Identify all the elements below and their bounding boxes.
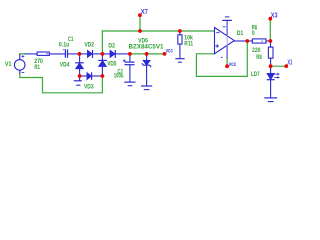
diode VD3 [80, 73, 103, 79]
svg-text:D1: D1 [237, 30, 244, 37]
wire X7 drop [139, 17, 141, 32]
svg-text:X1: X1 [287, 58, 292, 67]
pin X1 dot [284, 64, 288, 68]
capacitor C1 [63, 49, 79, 57]
ground below VD6 [142, 86, 152, 90]
svg-text:V1: V1 [5, 61, 12, 68]
svg-text:VD3: VD3 [84, 84, 94, 91]
svg-text:VD4: VD4 [60, 62, 70, 69]
junction node C [78, 74, 82, 78]
svg-text:R1: R1 [34, 64, 40, 71]
pin X3 dot [268, 17, 272, 21]
svg-text:100u: 100u [114, 73, 124, 80]
wire V1 top stub [20, 53, 25, 56]
pin vcc dot at op-amp [225, 64, 229, 68]
LED LD7 [267, 66, 280, 97]
resistor R6 [247, 39, 270, 43]
wire node B up-link to upper rail [101, 31, 103, 54]
junction op-amp output [245, 39, 249, 43]
op-amp output lead [234, 40, 247, 42]
wire main VCC rail right section [130, 53, 165, 55]
resistor R1 [25, 52, 65, 55]
junction R6 right [269, 39, 273, 43]
svg-text:VD2: VD2 [84, 42, 94, 49]
pin X7 dot [138, 13, 142, 17]
ground below R11 [176, 59, 184, 63]
svg-text:LD7: LD7 [251, 71, 260, 78]
ground below LD7 [265, 98, 277, 102]
svg-text:D2: D2 [108, 42, 115, 49]
junction at VD6 [145, 52, 149, 56]
op-amp U1 [215, 21, 235, 58]
resistor R11 [178, 31, 182, 58]
voltage source V1 [14, 54, 25, 72]
ground below C2 [125, 82, 135, 86]
wire R8 bottom to X1 [271, 65, 287, 67]
junction at C2 [128, 52, 132, 56]
junction R11 top [178, 29, 182, 33]
svg-text:BZX84C5V1: BZX84C5V1 [129, 44, 164, 51]
junction node D [101, 74, 105, 78]
junction R8 bottom [269, 64, 273, 68]
svg-text:R11: R11 [184, 40, 193, 47]
svg-text:VD5: VD5 [107, 61, 117, 68]
svg-text:X7: X7 [141, 7, 148, 16]
capacitor C2 [123, 54, 134, 82]
diode VD2 [79, 51, 102, 58]
junction node B [101, 52, 105, 56]
svg-text:0.1u: 0.1u [59, 41, 70, 48]
svg-text:vcc: vcc [229, 61, 237, 68]
wire V1 bottom net to bridge node D [20, 73, 103, 93]
svg-text:vcc: vcc [166, 48, 173, 55]
ground at bridge node C [74, 76, 81, 85]
resistor R8 [268, 41, 273, 66]
zener diode VD6 [142, 54, 151, 86]
junction node A [78, 52, 82, 56]
junction vcc flag [163, 52, 167, 56]
wire upper rail to op-amp inverting input [102, 30, 214, 32]
diode D2 [102, 51, 129, 58]
junction X7 on upper rail [138, 29, 142, 33]
diode VD4 [76, 54, 83, 76]
svg-text:0: 0 [252, 30, 255, 37]
wire feedback loop to non-inverting input [196, 41, 247, 76]
svg-text:R8: R8 [256, 54, 262, 61]
wire op-amp vcc pin stub [226, 58, 228, 65]
diode VD5 [99, 54, 106, 76]
op-amp positive supply bar [223, 17, 231, 21]
wire X3 drop [269, 20, 271, 41]
